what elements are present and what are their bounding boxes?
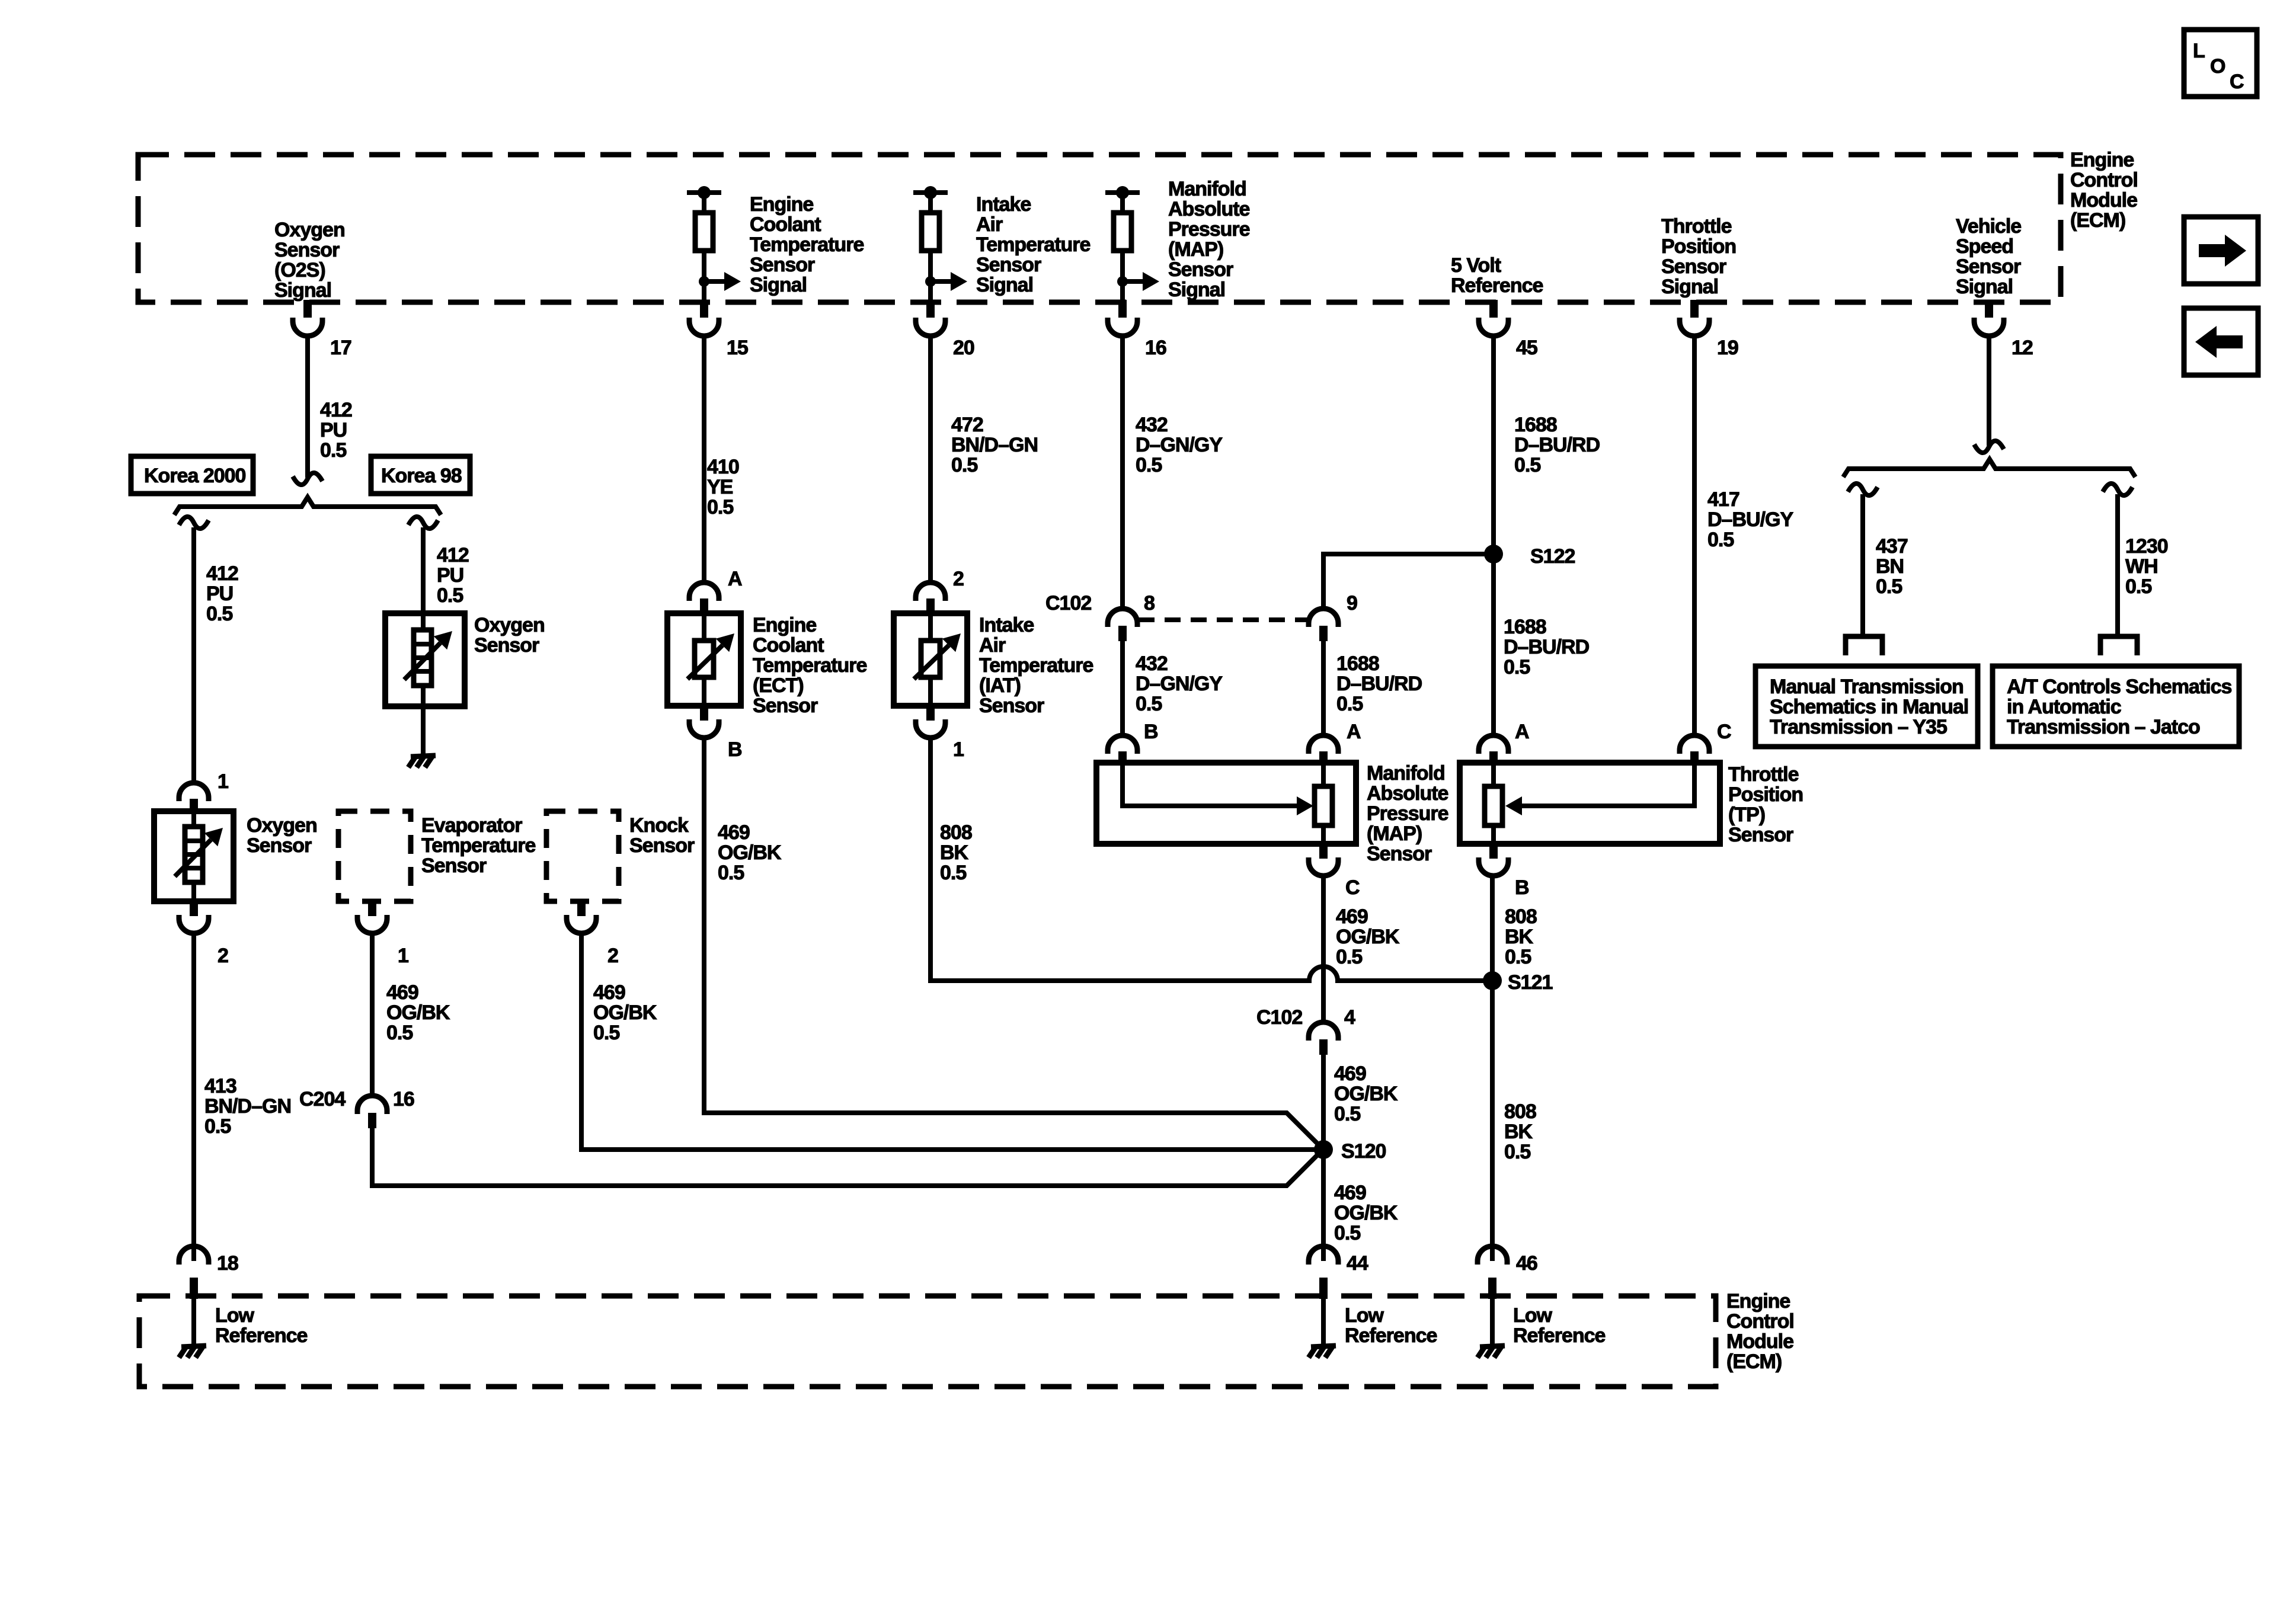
wire label 469 OG/BK 0.5 (MAP C) [1336, 905, 1400, 968]
svg-text:Korea 98: Korea 98 [381, 465, 462, 487]
wire label 410 YE 0.5 [707, 456, 739, 518]
svg-text:D–BU/RD: D–BU/RD [1514, 434, 1600, 456]
svg-text:0.5: 0.5 [1336, 946, 1362, 968]
svg-text:BN/D–GN: BN/D–GN [951, 434, 1038, 456]
break symbol at wire 17 end [293, 473, 322, 485]
svg-text:Coolant: Coolant [753, 634, 824, 657]
wire 412 PU Korea 98 branch [421, 527, 426, 613]
svg-text:1: 1 [398, 945, 408, 967]
brace VSS branch [1843, 459, 2135, 477]
wire 417 D-BU/GY from pin 19 to TP C [1692, 336, 1697, 736]
svg-text:BN: BN [1876, 555, 1904, 578]
break symbol 437 branch [1848, 484, 1878, 495]
svg-text:Manual Transmission: Manual Transmission [1770, 676, 1964, 698]
bracket above manual transmission box [1846, 636, 1882, 655]
wire 1688 D-BU/RD from C102-9 to MAP A [1321, 641, 1326, 736]
dashed jumper C102 8 to 9 [1139, 617, 1307, 622]
svg-text:Sensor: Sensor [1728, 824, 1793, 846]
svg-text:0.5: 0.5 [951, 454, 977, 476]
right arrow box [2184, 217, 2258, 284]
MAP sensor pin C [1309, 844, 1360, 899]
ECT sensor pin A [689, 568, 742, 613]
wire label 808 BK 0.5 (S121 to 46) [1504, 1100, 1536, 1163]
svg-text:Engine: Engine [753, 614, 816, 636]
node: Vehicle Speed Sensor Signal [1956, 215, 2021, 298]
svg-text:Engine: Engine [750, 193, 813, 216]
svg-text:0.5: 0.5 [1876, 575, 1902, 598]
wire label 469 OG/BK 0.5 (above S120) [1334, 1062, 1398, 1125]
ECM pin 46 [1478, 1246, 1537, 1299]
brace under wire 17 [174, 497, 441, 515]
svg-text:OG/BK: OG/BK [1334, 1202, 1398, 1224]
svg-text:D–BU/RD: D–BU/RD [1336, 673, 1422, 695]
svg-text:Knock: Knock [629, 814, 689, 837]
knock sensor pin 2 [567, 901, 618, 967]
svg-text:(MAP): (MAP) [1367, 822, 1422, 845]
svg-text:Transmission – Jatco: Transmission – Jatco [2007, 716, 2200, 738]
MAP sensor pin A [1309, 721, 1361, 764]
svg-text:Temperature: Temperature [753, 654, 867, 677]
svg-text:OG/BK: OG/BK [1334, 1083, 1398, 1105]
svg-text:Speed: Speed [1956, 235, 2013, 258]
svg-text:Signal: Signal [1956, 276, 2013, 298]
TP sensor pin C [1680, 721, 1731, 764]
svg-text:D–GN/GY: D–GN/GY [1136, 434, 1223, 456]
svg-text:Low: Low [1513, 1304, 1553, 1327]
svg-text:Air: Air [976, 213, 1003, 236]
ECM pin 15 [689, 300, 748, 359]
svg-text:0.5: 0.5 [1505, 946, 1531, 968]
label Low Reference (pin 44) [1345, 1304, 1437, 1347]
svg-text:Engine: Engine [2070, 149, 2134, 171]
svg-text:1230: 1230 [2125, 535, 2168, 558]
svg-text:412: 412 [320, 399, 352, 421]
svg-text:A: A [1515, 721, 1529, 743]
wire from C204 to S120 (bottom) [372, 1128, 1323, 1186]
ECM pin 45 [1479, 300, 1537, 359]
svg-text:0.5: 0.5 [1136, 454, 1162, 476]
svg-text:Manifold: Manifold [1168, 178, 1246, 200]
wire label 808 BK 0.5 (IAT) [940, 821, 972, 884]
svg-text:Schematics in Manual: Schematics in Manual [1770, 696, 1968, 718]
label Manifold Absolute Pressure (MAP) Sensor [1367, 762, 1448, 865]
label Throttle Position (TP) Sensor [1728, 763, 1803, 846]
wire 469 OG/BK from MAP C to C102-4 [1321, 876, 1326, 1022]
svg-text:808: 808 [1504, 1100, 1536, 1123]
wire 413 BN/D-GN from O2S pin 2 to pin 18 [191, 933, 196, 1261]
node: Engine Coolant Temperature Sensor Signal [750, 193, 864, 296]
svg-text:Reference: Reference [215, 1324, 308, 1347]
svg-text:YE: YE [707, 476, 733, 498]
svg-text:Position: Position [1661, 235, 1736, 258]
svg-text:C102: C102 [1045, 592, 1091, 614]
svg-text:L: L [2193, 40, 2205, 62]
svg-text:Low: Low [1345, 1304, 1384, 1327]
svg-text:Sensor: Sensor [247, 834, 312, 857]
wire 469 OG/BK from S120 to pin 44 [1321, 1150, 1326, 1261]
svg-text:C: C [1345, 876, 1360, 899]
ECM label top right [2070, 149, 2138, 232]
connector C102 pin 4 [1256, 1006, 1355, 1055]
svg-text:Temperature: Temperature [976, 233, 1091, 256]
svg-text:Signal: Signal [750, 274, 807, 296]
svg-text:Throttle: Throttle [1728, 763, 1799, 786]
svg-text:(O2S): (O2S) [274, 259, 325, 281]
svg-text:808: 808 [940, 821, 972, 844]
break symbol Korea 2000 branch [179, 517, 209, 529]
Korea 98 box [371, 456, 470, 494]
svg-text:9: 9 [1347, 592, 1357, 614]
svg-text:Sensor: Sensor [976, 254, 1041, 276]
svg-text:0.5: 0.5 [1136, 693, 1162, 715]
svg-text:(ECM): (ECM) [2070, 209, 2125, 232]
wire 432 D-GN/GY from C102-8 to MAP B [1120, 641, 1125, 736]
svg-text:Transmission – Y35: Transmission – Y35 [1770, 716, 1947, 738]
svg-text:Oxygen: Oxygen [247, 814, 317, 837]
svg-text:Sensor: Sensor [753, 694, 818, 717]
svg-text:469: 469 [1334, 1182, 1366, 1204]
svg-text:0.5: 0.5 [718, 862, 744, 884]
ECM pin 17 [293, 300, 351, 359]
svg-text:Control: Control [1726, 1310, 1794, 1333]
wire 472 BN/D-GN from pin 20 to IAT 2 [928, 336, 933, 583]
svg-text:(IAT): (IAT) [979, 674, 1021, 697]
wire 808 BK from TP B through S121 to pin 46 [1490, 876, 1495, 1261]
svg-text:1688: 1688 [1504, 616, 1546, 638]
MAP sensor pin B [1108, 721, 1158, 764]
label Oxygen Sensor (Korea 98) [474, 614, 545, 657]
svg-text:Reference: Reference [1345, 1324, 1437, 1347]
ground (pin 18) [179, 1346, 206, 1358]
svg-text:Absolute: Absolute [1367, 782, 1448, 805]
IAT sensor pin 2 [916, 568, 964, 613]
ground (pin 46) [1478, 1346, 1505, 1358]
node: Throttle Position Sensor Signal [1661, 215, 1736, 298]
svg-text:S120: S120 [1341, 1140, 1386, 1163]
svg-text:B: B [1515, 876, 1529, 899]
svg-text:412: 412 [437, 544, 469, 566]
svg-text:Absolute: Absolute [1168, 198, 1250, 220]
wire 1688 D-BU/RD from pin 45 [1491, 336, 1496, 736]
svg-text:B: B [1144, 721, 1158, 743]
svg-text:19: 19 [1717, 337, 1738, 359]
svg-text:44: 44 [1347, 1252, 1368, 1275]
evaporator sensor pin 1 [357, 901, 408, 967]
svg-text:Reference: Reference [1513, 1324, 1606, 1347]
ECM pin 44 [1309, 1246, 1368, 1299]
wire label 412 PU 0.5 [320, 399, 352, 462]
wire label 432 D-GN/GY 0.5 (upper) [1136, 414, 1223, 476]
svg-text:16: 16 [393, 1088, 414, 1110]
svg-text:Sensor: Sensor [274, 239, 340, 261]
svg-text:C: C [2230, 71, 2244, 93]
wire inside ECM pin 46 to ground [1490, 1298, 1495, 1346]
svg-text:Vehicle: Vehicle [1956, 215, 2021, 238]
svg-text:PU: PU [437, 564, 463, 587]
connector C102 pin 8 [1045, 592, 1155, 641]
svg-text:432: 432 [1136, 414, 1168, 436]
label Oxygen Sensor (left) [247, 814, 317, 857]
svg-text:Throttle: Throttle [1661, 215, 1732, 238]
svg-text:45: 45 [1516, 337, 1537, 359]
svg-text:1688: 1688 [1336, 652, 1379, 675]
svg-text:C102: C102 [1256, 1006, 1302, 1029]
resistor inside ECM for IAT signal [913, 186, 967, 301]
label Evaporator Temperature Sensor [421, 814, 536, 877]
svg-text:Oxygen: Oxygen [474, 614, 545, 636]
ECM pin 20 [916, 300, 974, 359]
wire 432 D-GN/GY from pin 16 to C102-8 [1120, 336, 1125, 609]
svg-text:Pressure: Pressure [1168, 218, 1250, 241]
svg-text:0.5: 0.5 [593, 1022, 619, 1044]
wire label 469 OG/BK 0.5 (evap) [386, 981, 450, 1044]
svg-text:412: 412 [206, 562, 238, 585]
svg-text:0.5: 0.5 [206, 603, 232, 625]
wire label 808 BK 0.5 (TP B) [1505, 905, 1537, 968]
svg-text:Sensor: Sensor [1367, 843, 1432, 865]
svg-text:469: 469 [718, 821, 750, 844]
wire label 413 BN/D-GN 0.5 [204, 1075, 291, 1138]
svg-text:Signal: Signal [274, 279, 331, 302]
svg-text:Sensor: Sensor [1661, 255, 1726, 278]
svg-text:472: 472 [951, 414, 983, 436]
knock sensor (dashed) [546, 811, 619, 901]
svg-text:Reference: Reference [1451, 274, 1543, 297]
svg-text:46: 46 [1516, 1252, 1537, 1275]
wire 469 OG/BK from evaporator sensor [370, 933, 375, 1096]
wire label 437 BN 0.5 [1876, 535, 1908, 598]
label Engine Coolant Temperature (ECT) Sensor [753, 614, 867, 717]
svg-text:C204: C204 [299, 1088, 346, 1110]
wire from pin 12 (VSS) [1987, 336, 1991, 446]
label Knock Sensor [629, 814, 695, 857]
resistor inside ECM for ECT signal [687, 186, 741, 301]
left arrow box [2184, 308, 2258, 375]
wire label 1688 D-BU/RD 0.5 (pin9) [1336, 652, 1422, 715]
connector C102 pin 9 [1309, 592, 1357, 641]
break symbol VSS wire [1974, 441, 2004, 453]
svg-text:Sensor: Sensor [1956, 255, 2021, 278]
ECM label bottom right [1726, 1290, 1794, 1373]
svg-text:413: 413 [204, 1075, 236, 1097]
svg-text:0.5: 0.5 [437, 584, 463, 607]
svg-text:20: 20 [953, 337, 974, 359]
MAP sensor box [1096, 763, 1356, 844]
svg-text:437: 437 [1876, 535, 1908, 558]
splice S121 [1483, 971, 1552, 994]
sensor pin 2 (left O2S) [179, 901, 228, 967]
svg-text:1: 1 [218, 770, 228, 793]
svg-text:12: 12 [2012, 337, 2033, 359]
svg-text:D–GN/GY: D–GN/GY [1136, 673, 1223, 695]
label Low Reference (pin 46) [1513, 1304, 1606, 1347]
bracket above A/T box [2100, 636, 2137, 655]
svg-text:8: 8 [1144, 592, 1155, 614]
svg-text:469: 469 [386, 981, 418, 1004]
oxygen sensor (left) [154, 811, 234, 901]
wire 469 OG/BK from ECT B to S120 (top) [704, 738, 1323, 1150]
label Intake Air Temperature (IAT) Sensor [979, 614, 1093, 717]
A/T controls box [1993, 666, 2239, 747]
ECT sensor [667, 613, 741, 706]
svg-text:0.5: 0.5 [707, 496, 733, 518]
wire inside ECM pin 44 to ground [1321, 1298, 1326, 1346]
splice S122 [1484, 545, 1575, 568]
wire label 469 OG/BK 0.5 (below S120) [1334, 1182, 1398, 1244]
svg-text:C: C [1717, 721, 1731, 743]
svg-text:0.5: 0.5 [1707, 529, 1734, 551]
ECM pin 18 [179, 1246, 238, 1299]
svg-text:Sensor: Sensor [1168, 258, 1233, 281]
svg-text:BK: BK [1504, 1121, 1533, 1143]
svg-text:BN/D–GN: BN/D–GN [204, 1095, 291, 1118]
svg-text:16: 16 [1145, 337, 1166, 359]
wire label 1688 D-BU/RD 0.5 (upper) [1514, 414, 1600, 476]
wire label 417 D-BU/GY 0.5 [1707, 488, 1793, 551]
svg-text:Manifold: Manifold [1367, 762, 1445, 785]
svg-text:Intake: Intake [979, 614, 1034, 636]
break symbol 1230 branch [2103, 484, 2132, 495]
svg-text:OG/BK: OG/BK [1336, 926, 1400, 948]
svg-text:Oxygen: Oxygen [274, 219, 345, 241]
manual transmission box [1755, 666, 1978, 747]
svg-text:Signal: Signal [1661, 276, 1718, 298]
svg-text:OG/BK: OG/BK [593, 1001, 657, 1024]
svg-text:2: 2 [953, 568, 964, 590]
svg-text:0.5: 0.5 [1334, 1103, 1360, 1125]
svg-text:A: A [728, 568, 742, 590]
svg-text:BK: BK [1505, 926, 1534, 948]
splice S120 [1314, 1140, 1386, 1163]
svg-text:D–BU/GY: D–BU/GY [1707, 508, 1793, 531]
svg-text:808: 808 [1505, 905, 1537, 928]
Korea 2000 box [131, 456, 253, 494]
TP sensor box [1460, 763, 1720, 844]
svg-text:Sensor: Sensor [474, 634, 539, 657]
svg-text:A: A [1347, 721, 1361, 743]
svg-text:Sensor: Sensor [629, 834, 695, 857]
svg-text:Sensor: Sensor [421, 854, 487, 877]
svg-text:PU: PU [206, 582, 233, 605]
svg-text:0.5: 0.5 [1334, 1222, 1360, 1244]
svg-text:1: 1 [953, 738, 964, 761]
wire inside ECM pin 18 to ground [191, 1298, 196, 1346]
resistor inside ECM for MAP signal [1105, 186, 1159, 301]
ECM pin 16 [1108, 300, 1166, 359]
node: Oxygen Sensor (O2S) Signal [274, 219, 345, 302]
svg-text:Sensor: Sensor [979, 694, 1044, 717]
node: Intake Air Temperature Sensor Signal [976, 193, 1091, 296]
IAT sensor pin 1 [916, 706, 964, 761]
svg-text:5 Volt: 5 Volt [1451, 254, 1501, 277]
svg-text:Control: Control [2070, 169, 2138, 191]
wire label 469 OG/BK 0.5 (ECT) [718, 821, 782, 884]
svg-text:PU: PU [320, 419, 347, 441]
svg-text:Korea 2000: Korea 2000 [144, 465, 246, 487]
svg-text:in Automatic: in Automatic [2007, 696, 2121, 718]
svg-text:D–BU/RD: D–BU/RD [1504, 636, 1590, 658]
svg-text:15: 15 [727, 337, 748, 359]
node: Manifold Absolute Pressure (MAP) Sensor Signal [1168, 178, 1250, 301]
svg-text:B: B [728, 738, 742, 761]
svg-text:4: 4 [1344, 1006, 1355, 1029]
svg-text:Evaporator: Evaporator [421, 814, 522, 837]
svg-text:0.5: 0.5 [320, 439, 346, 462]
svg-text:(MAP): (MAP) [1168, 238, 1223, 261]
svg-text:469: 469 [1334, 1062, 1366, 1085]
node: 5 Volt Reference [1451, 254, 1543, 297]
ECM bottom dashed box [139, 1296, 1716, 1387]
sensor pin 1 (left O2S) [179, 770, 228, 812]
svg-text:17: 17 [330, 337, 351, 359]
svg-text:Low: Low [215, 1304, 255, 1327]
svg-text:(ECT): (ECT) [753, 674, 804, 697]
svg-text:0.5: 0.5 [2125, 575, 2151, 598]
svg-text:0.5: 0.5 [1514, 454, 1540, 476]
TP sensor pin B [1479, 844, 1529, 899]
svg-text:WH: WH [2125, 555, 2158, 578]
svg-text:Temperature: Temperature [421, 834, 536, 857]
svg-text:1688: 1688 [1514, 414, 1557, 436]
ECT sensor pin B [689, 706, 742, 761]
svg-text:Intake: Intake [976, 193, 1031, 216]
svg-text:Module: Module [1726, 1330, 1793, 1353]
svg-text:Pressure: Pressure [1367, 802, 1448, 825]
wire 808 BK from IAT 1 to S121 with hop over MAP C wire [930, 738, 1492, 981]
svg-text:2: 2 [607, 945, 618, 967]
svg-text:BK: BK [940, 841, 969, 864]
svg-text:S121: S121 [1508, 971, 1552, 994]
LOC box [2184, 30, 2257, 97]
svg-text:(ECM): (ECM) [1726, 1350, 1782, 1373]
connector C204 pin 16 [299, 1088, 414, 1128]
wire label 469 OG/BK 0.5 (knock) [593, 981, 657, 1044]
svg-text:469: 469 [1336, 905, 1368, 928]
svg-text:Sensor: Sensor [750, 254, 815, 276]
svg-text:Temperature: Temperature [750, 233, 864, 256]
wire below Korea 98 O2S to ground [421, 706, 426, 756]
svg-text:469: 469 [593, 981, 625, 1004]
wire 437 BN [1860, 494, 1865, 636]
svg-text:Module: Module [2070, 189, 2137, 212]
svg-text:417: 417 [1707, 488, 1739, 511]
ground (Korea 98 O2S) [408, 756, 436, 767]
svg-text:0.5: 0.5 [1504, 656, 1530, 678]
svg-text:Air: Air [979, 634, 1006, 657]
svg-text:410: 410 [707, 456, 739, 478]
label Low Reference (pin 18) [215, 1304, 308, 1347]
IAT sensor [894, 613, 967, 706]
wire from S122 to C102-9 [1323, 554, 1494, 609]
svg-text:0.5: 0.5 [204, 1115, 231, 1138]
wire 412 PU Korea 2000 branch [191, 527, 196, 783]
svg-text:S122: S122 [1530, 545, 1575, 568]
ECM pin 19 [1680, 300, 1738, 359]
svg-text:Signal: Signal [976, 274, 1033, 296]
svg-text:0.5: 0.5 [940, 862, 966, 884]
break symbol Korea 98 branch [408, 517, 438, 529]
svg-text:Signal: Signal [1168, 279, 1225, 301]
svg-text:O: O [2210, 55, 2225, 78]
svg-text:OG/BK: OG/BK [386, 1001, 450, 1024]
svg-text:0.5: 0.5 [1336, 693, 1363, 715]
wire 469 OG/BK from knock sensor to S120 (middle) [581, 933, 1323, 1150]
wire label 472 BN/D-GN 0.5 [951, 414, 1038, 476]
svg-text:Engine: Engine [1726, 1290, 1790, 1313]
wire label 432 D-GN/GY 0.5 (lower) [1136, 652, 1223, 715]
svg-text:OG/BK: OG/BK [718, 841, 782, 864]
wire label 1688 D-BU/RD 0.5 (below S122) [1504, 616, 1590, 678]
